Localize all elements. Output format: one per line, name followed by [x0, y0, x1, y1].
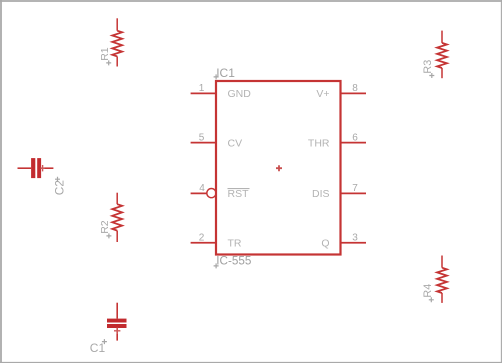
capacitor C2	[18, 158, 67, 195]
resistor R3	[422, 31, 447, 79]
R3 top lead wire	[441, 31, 443, 43]
svg-text:TR: TR	[228, 238, 242, 250]
svg-text:R3: R3	[422, 60, 434, 74]
C1 top plate	[107, 319, 127, 323]
svg-text:5: 5	[199, 132, 205, 143]
svg-text:RST: RST	[228, 188, 250, 200]
label IC1 text origin cross	[214, 74, 219, 79]
IC1 origin cross	[276, 165, 282, 171]
pin 3 wire	[341, 242, 367, 244]
R2 zigzag body	[112, 204, 122, 230]
pin 2 wire	[191, 242, 216, 244]
svg-text:CV: CV	[228, 137, 243, 149]
svg-text:THR: THR	[308, 137, 330, 149]
svg-text:R1: R1	[99, 47, 111, 61]
R4 zigzag body	[437, 268, 447, 293]
svg-text:IC1: IC1	[216, 66, 235, 80]
svg-text:C2: C2	[53, 180, 67, 195]
svg-text:3: 3	[352, 233, 358, 244]
svg-text:IC-555: IC-555	[216, 255, 252, 268]
R2 label origin cross	[106, 233, 111, 238]
R2 bottom lead wire	[116, 231, 118, 242]
resistor R2	[99, 193, 122, 242]
svg-text:R4: R4	[422, 284, 434, 298]
R1 zigzag body	[112, 31, 122, 57]
IC1 box outline	[216, 81, 341, 255]
svg-text:7: 7	[352, 183, 358, 194]
RST overline	[228, 188, 250, 190]
pin 7 wire	[341, 192, 367, 194]
resistor R1	[99, 18, 122, 66]
svg-text:1: 1	[199, 83, 205, 94]
R4 top lead wire	[441, 256, 443, 268]
C1 bottom plate	[107, 324, 127, 328]
pin 1 wire	[191, 92, 216, 94]
C1 label origin cross	[102, 339, 107, 344]
R2 top lead wire	[116, 193, 118, 205]
R1 label origin cross	[106, 60, 111, 65]
R3 zigzag body	[437, 43, 447, 68]
C2 right plate	[37, 158, 41, 178]
C2 left lead wire	[18, 167, 32, 169]
svg-text:V+: V+	[316, 88, 329, 100]
svg-text:6: 6	[352, 132, 358, 143]
IC IC1 (IC-555 timer)	[191, 66, 366, 268]
svg-text:DIS: DIS	[312, 188, 330, 200]
C2 part origin cross	[41, 165, 45, 171]
R1 top lead wire	[116, 18, 118, 30]
svg-text:GND: GND	[228, 88, 252, 100]
capacitor C1	[90, 303, 127, 356]
pin 4 inversion bubble	[207, 189, 216, 198]
svg-text:Q: Q	[321, 238, 329, 250]
pin 8 wire	[341, 92, 367, 94]
C2 left plate	[31, 158, 35, 178]
pin 4 wire	[191, 192, 207, 194]
label IC-555 text origin cross	[214, 263, 219, 268]
svg-text:C1: C1	[90, 341, 106, 355]
C1 top lead wire	[116, 303, 118, 319]
R1 bottom lead wire	[116, 56, 118, 66]
resistor R4	[422, 256, 447, 303]
svg-text:R2: R2	[99, 220, 111, 234]
R4 label origin cross	[429, 297, 434, 302]
R4 bottom lead wire	[441, 293, 443, 303]
C1 bottom lead wire	[116, 328, 118, 341]
svg-text:4: 4	[199, 183, 205, 194]
R3 label origin cross	[429, 73, 434, 78]
pin 5 wire	[191, 142, 216, 144]
svg-text:8: 8	[352, 83, 358, 94]
C1 part origin cross	[114, 328, 120, 334]
pin 6 wire	[341, 142, 367, 144]
R3 bottom lead wire	[441, 68, 443, 78]
C2 right lead wire	[41, 167, 53, 169]
svg-text:2: 2	[199, 233, 205, 244]
C2 label origin cross	[55, 177, 60, 182]
